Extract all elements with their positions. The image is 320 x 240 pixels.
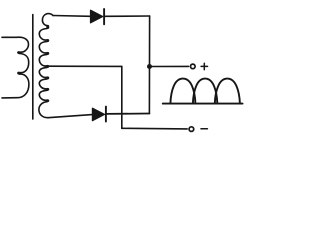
transformer T1 primary winding: [2, 37, 29, 98]
waveform hump 1: [170, 79, 195, 104]
coil cusp ink blobs: [17, 27, 49, 102]
label -: [201, 128, 207, 130]
wire: secondary top to diode D1: [53, 15, 90, 18]
diode D2: [92, 108, 104, 121]
wire: center-tap vertical: [121, 66, 123, 128]
wire: diode D1 to top-right corner: [105, 15, 150, 17]
transformer core: [32, 15, 34, 120]
waveform baseline: [163, 103, 243, 105]
terminal + (circle): [191, 64, 196, 69]
wire: secondary bottom to diode D2: [48, 115, 92, 118]
wire: junction to + terminal: [150, 65, 189, 67]
label +: [201, 63, 207, 69]
wire: right vertical (D1 output down to bottom rail): [148, 16, 150, 114]
terminal - (circle): [189, 127, 194, 132]
wire: bottom to - terminal: [122, 127, 187, 130]
waveform hump 2: [193, 79, 217, 104]
wire: center tap to corner: [47, 65, 121, 67]
wire: diode D2 to right vertical: [107, 113, 150, 115]
diode D1: [91, 10, 103, 23]
junction dot: [147, 64, 152, 69]
waveform hump 3: [215, 79, 240, 104]
transformer T1 secondary winding: [39, 14, 53, 118]
